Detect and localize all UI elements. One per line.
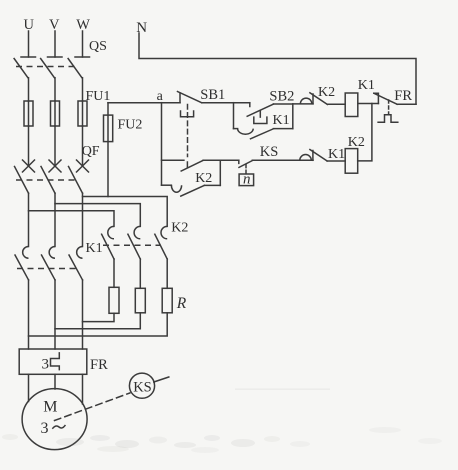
- breaker QF pole 3: [69, 160, 89, 193]
- wire N rail: [139, 33, 416, 104]
- contactor K2 main pole 3: [155, 226, 167, 259]
- wire K2 pole2 to R2: [139, 259, 141, 288]
- contactor K1 main pole 2: [42, 247, 56, 280]
- wire node a drop: [161, 103, 163, 186]
- contact K2 NC in K1 branch: [300, 93, 345, 105]
- svg-text:QS: QS: [89, 39, 107, 54]
- speed relay KS circle: [129, 373, 154, 398]
- wire phase3 to FR: [82, 280, 84, 349]
- wire R3 tie to phase1: [29, 313, 168, 336]
- svg-text:R: R: [176, 295, 187, 312]
- wire row2 to KS: [203, 159, 239, 161]
- resistor R1: [109, 287, 119, 313]
- wire FR to motor 1: [28, 374, 30, 401]
- coil K2: [345, 149, 358, 174]
- wire tap B phase2: [55, 204, 140, 227]
- contactor K2 main pole 1: [102, 226, 114, 259]
- svg-text:n: n: [243, 172, 251, 188]
- button SB1 NC contact: [178, 92, 202, 103]
- shaft dashed link motor to KS: [55, 393, 130, 421]
- wire phase2 down: [54, 193, 56, 246]
- FR heater bump: [378, 115, 398, 123]
- wire row2 left: [162, 159, 184, 161]
- wire phase2 to FR: [54, 280, 56, 349]
- svg-text:K1: K1: [328, 147, 345, 162]
- QF linkage dashed: [16, 179, 76, 181]
- svg-text:FU2: FU2: [118, 117, 143, 132]
- wire W stub: [82, 31, 84, 57]
- fuse FU1 pole 3: [78, 101, 87, 126]
- contactor K2 main pole 2: [128, 226, 140, 259]
- SB1 cap: [181, 111, 194, 117]
- svg-text:K2: K2: [348, 135, 365, 150]
- wire R1 tie to phase3: [83, 313, 115, 321]
- shaft stub beyond KS: [154, 377, 169, 382]
- wire U stub: [28, 31, 30, 57]
- fuse FU1 pole 2: [51, 101, 60, 126]
- resistor R2: [135, 288, 145, 313]
- K1 main linkage dashed: [17, 268, 76, 270]
- wire K1 coil to FR contact: [358, 103, 378, 105]
- wire SB1 to SB2: [202, 102, 250, 104]
- K2 main linkage dashed: [103, 244, 161, 246]
- fuse FU1 pole 1: [24, 101, 33, 126]
- wire W to FU1: [82, 78, 84, 101]
- button SB1 NO linked contact: [181, 160, 203, 171]
- wire K2 coil return: [358, 104, 372, 161]
- wire phase1 to FR: [28, 280, 30, 349]
- breaker QF pole 2: [41, 160, 61, 193]
- wire U to FU1: [28, 78, 30, 101]
- svg-text:K2: K2: [318, 85, 335, 100]
- switch QS pole 2: [41, 57, 62, 78]
- wire W to QF: [82, 126, 84, 166]
- coil K1: [345, 93, 358, 117]
- breaker QF pole 1: [15, 160, 35, 193]
- wire K2 pole3 to R3: [166, 259, 168, 288]
- thermal relay FR box: [19, 349, 87, 374]
- motor M circle: [22, 389, 87, 450]
- svg-text:K1: K1: [86, 241, 103, 256]
- wire KS to K1 NC: [252, 159, 313, 161]
- svg-text:SB2: SB2: [269, 88, 294, 104]
- SB2 cap: [254, 117, 267, 123]
- svg-text:a: a: [157, 89, 164, 104]
- FR heater symbol: [51, 353, 60, 370]
- contact K1 NC in K2 branch: [300, 150, 345, 162]
- svg-text:FU1: FU1: [86, 89, 111, 104]
- switch QS pole 3: [68, 57, 89, 78]
- wire V to QF: [54, 126, 56, 166]
- wire K2 pole1 to R1: [113, 259, 115, 287]
- n box: [239, 174, 254, 186]
- contactor K1 main pole 1: [15, 247, 29, 280]
- SB1 dashed stem: [187, 105, 189, 157]
- wire SB2 to K2 NC: [273, 103, 313, 105]
- switch QS pole 1: [14, 57, 35, 78]
- wire FR to motor 3: [82, 374, 84, 404]
- wire FR to motor 2: [54, 374, 56, 389]
- svg-text:SB1: SB1: [200, 87, 225, 103]
- svg-text:QF: QF: [82, 144, 100, 159]
- wire phase1 down: [28, 193, 30, 246]
- svg-text:KS: KS: [133, 379, 152, 395]
- wire V stub: [54, 31, 56, 57]
- wire U to QF: [28, 126, 30, 166]
- motor tilde: [53, 426, 65, 429]
- svg-text:3: 3: [42, 356, 50, 372]
- contact K2 aux self-hold: [162, 160, 221, 196]
- svg-text:K1: K1: [273, 113, 290, 128]
- contact K1 aux self-hold: [234, 103, 293, 139]
- svg-text:KS: KS: [260, 144, 279, 160]
- wire phase3 down: [82, 193, 84, 246]
- QS linkage dashed: [16, 66, 79, 68]
- button SB2 NO contact: [247, 103, 273, 117]
- SB2 stem: [259, 111, 261, 118]
- svg-text:FR: FR: [90, 357, 108, 373]
- KS stem dashed: [245, 165, 247, 174]
- wire control feed to node a: [108, 102, 180, 104]
- svg-text:N: N: [136, 20, 147, 36]
- FR dashed stem: [388, 100, 390, 115]
- svg-text:FR: FR: [394, 88, 412, 104]
- contact KS speed relay: [239, 160, 253, 167]
- resistor R3: [162, 288, 172, 313]
- fuse FU2: [104, 103, 113, 197]
- svg-text:K2: K2: [171, 221, 188, 236]
- svg-text:K1: K1: [358, 78, 375, 93]
- contact FR NC: [374, 93, 416, 104]
- svg-text:K2: K2: [195, 171, 212, 186]
- wire tap C phase1: [29, 211, 115, 227]
- svg-text:3: 3: [41, 420, 49, 437]
- wire V to FU1: [54, 78, 56, 101]
- svg-text:M: M: [43, 399, 57, 416]
- wire tap A phase3: [83, 197, 168, 227]
- contactor K1 main pole 3: [69, 247, 83, 280]
- wire R2 tie to phase2: [55, 313, 140, 329]
